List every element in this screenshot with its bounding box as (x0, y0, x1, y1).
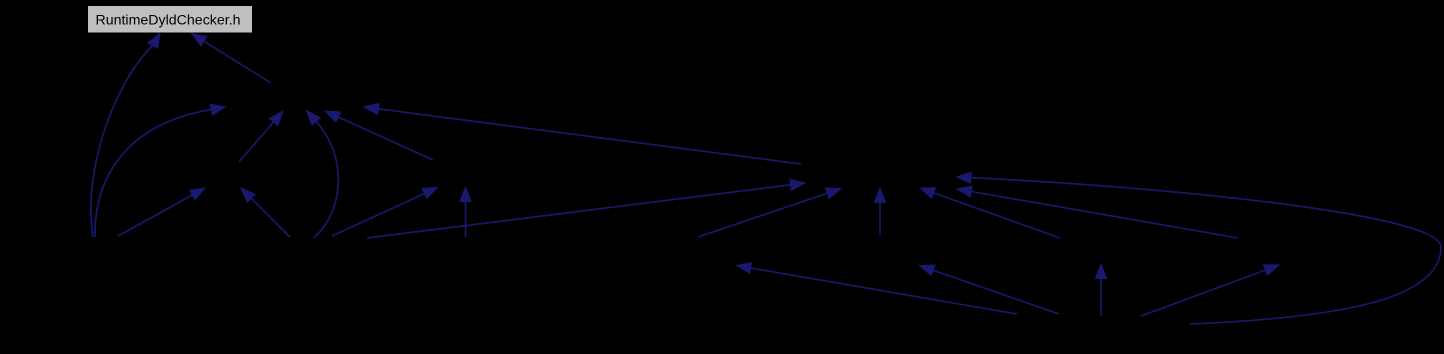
svg-text:RuntimeDyldChecker.h: RuntimeDyldChecker.h (95, 12, 240, 28)
